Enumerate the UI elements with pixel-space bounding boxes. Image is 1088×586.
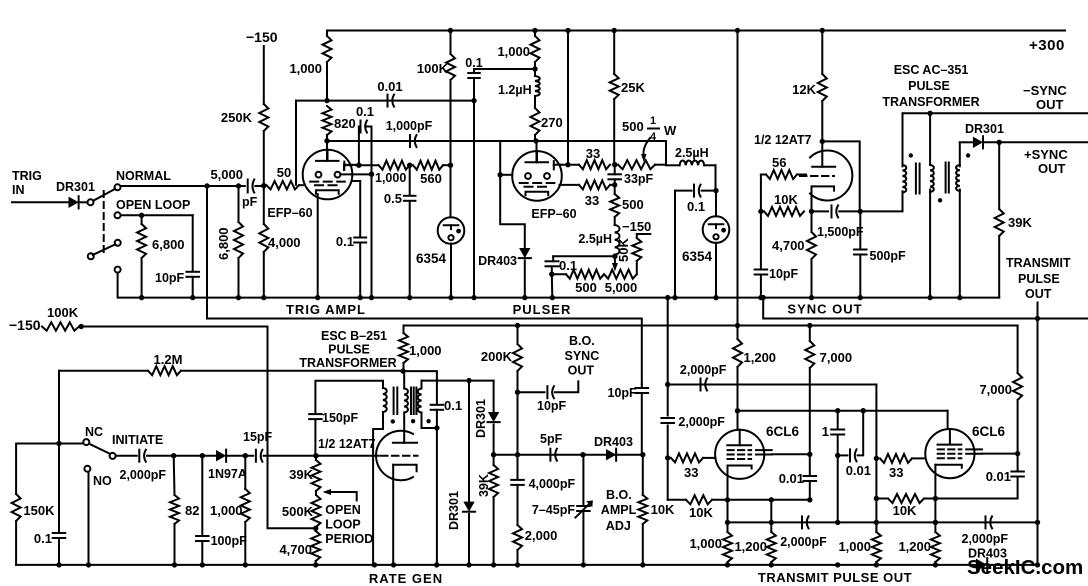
capacitor 4,000 pF bbox=[517, 455, 519, 480]
resistor 7,000 first bbox=[809, 326, 811, 342]
capacitor 2,000 pF lower bbox=[667, 385, 669, 416]
svg-text:0.1: 0.1 bbox=[687, 199, 705, 214]
section line sync out bbox=[763, 298, 1088, 319]
tube 6CL6 first bbox=[715, 430, 764, 479]
wire +300 to 6CL6 plates bbox=[737, 31, 739, 326]
svg-text:−150: −150 bbox=[622, 219, 651, 234]
resistor 82 bbox=[173, 456, 176, 495]
switch arm initiate bbox=[89, 444, 110, 454]
svg-text:150pF: 150pF bbox=[322, 411, 358, 425]
resistor 56 bbox=[761, 174, 766, 176]
capacitor 10 pF b.o. sync bbox=[518, 391, 545, 393]
svg-text:25K: 25K bbox=[621, 80, 645, 95]
wire plate bus 6CL6 bbox=[738, 410, 948, 412]
svg-text:NORMAL: NORMAL bbox=[116, 169, 171, 183]
-SYNC OUT wire bbox=[903, 112, 1088, 114]
wire +300 to screen V2 bbox=[567, 31, 569, 165]
svg-text:10K: 10K bbox=[651, 502, 675, 517]
svg-text:1: 1 bbox=[822, 424, 829, 439]
svg-text:39K: 39K bbox=[289, 467, 313, 482]
wire 0.1 to 1000 node bbox=[474, 68, 535, 70]
resistor 12K bbox=[821, 31, 823, 75]
capacitor 10 pF open loop bbox=[192, 215, 194, 271]
wire 2,000 pF top row bbox=[668, 384, 877, 386]
capacitor 500 pF bbox=[859, 211, 861, 249]
wire: -150 feed to 250K bbox=[263, 46, 265, 104]
svg-text:PERIOD: PERIOD bbox=[325, 532, 373, 546]
resistor 1,000 second body bbox=[872, 532, 881, 562]
wire trig to section line bbox=[206, 186, 208, 319]
svg-text:EFP–60: EFP–60 bbox=[531, 207, 576, 221]
resistor 1,200 first output bbox=[770, 500, 772, 532]
resistor 1.2M bbox=[59, 370, 148, 372]
resistor 7,000 second bbox=[1017, 326, 1019, 374]
svg-text:15pF: 15pF bbox=[243, 430, 273, 444]
resistor 1,000 cathode body bbox=[723, 532, 732, 562]
resistor 33 upper bbox=[561, 164, 579, 166]
svg-text:500: 500 bbox=[622, 119, 644, 134]
wire 1,000 pF coupling bbox=[327, 140, 666, 142]
open loop period arrow bbox=[330, 492, 357, 500]
+SYNC OUT wire bbox=[960, 141, 973, 143]
svg-text:OUT: OUT bbox=[1036, 97, 1064, 112]
svg-text:2,000pF: 2,000pF bbox=[678, 415, 725, 429]
resistor 500 screen bbox=[614, 185, 616, 194]
svg-text:+SYNC: +SYNC bbox=[1024, 147, 1068, 162]
capacitor 1 pF bbox=[837, 411, 839, 429]
resistor 200K bbox=[515, 323, 520, 328]
switch arm lower bbox=[93, 244, 116, 255]
wire NC to node bbox=[62, 443, 83, 445]
svg-text:0.1: 0.1 bbox=[34, 531, 52, 546]
svg-text:DR301: DR301 bbox=[965, 122, 1004, 136]
resistor 560 bbox=[413, 161, 443, 170]
switch pivot upper bbox=[88, 199, 94, 205]
wire screen 6CL6 second bbox=[982, 453, 1018, 455]
wire bypass to ground bbox=[473, 101, 475, 298]
svg-text:PULSER: PULSER bbox=[513, 302, 572, 317]
switch contact to ground bbox=[115, 267, 121, 273]
svg-text:0.1: 0.1 bbox=[465, 56, 482, 70]
capacitor 2,000 pF initiate bbox=[138, 450, 140, 462]
svg-text:DR403: DR403 bbox=[478, 254, 517, 268]
svg-text:2,000pF: 2,000pF bbox=[120, 468, 167, 482]
resistor 39K b.o. bbox=[493, 455, 495, 465]
svg-text:5,000: 5,000 bbox=[605, 280, 638, 295]
svg-text:OUT: OUT bbox=[1038, 161, 1066, 176]
wire anode chain V1 bbox=[343, 165, 345, 170]
diode DR301 rate gen bbox=[493, 381, 495, 412]
switch arm NORMAL bbox=[93, 189, 115, 201]
wire plate 6CL6 second bbox=[947, 411, 949, 429]
svg-text:OUT: OUT bbox=[568, 364, 595, 378]
transformer core bbox=[915, 164, 917, 194]
wire grid V2 tap bbox=[499, 141, 501, 175]
ground rail pulser bbox=[119, 297, 999, 299]
svg-text:NC: NC bbox=[85, 425, 103, 439]
wire x668 column bbox=[667, 298, 669, 385]
svg-text:INITIATE: INITIATE bbox=[112, 433, 163, 447]
wire plate to output network corner bbox=[665, 141, 667, 165]
svg-text:ADJ: ADJ bbox=[606, 519, 631, 533]
svg-text:DR301: DR301 bbox=[447, 491, 461, 530]
svg-text:7,000: 7,000 bbox=[979, 382, 1012, 397]
svg-text:1,200: 1,200 bbox=[734, 539, 767, 554]
svg-text:0.1: 0.1 bbox=[444, 398, 462, 413]
svg-text:10pF: 10pF bbox=[537, 399, 567, 413]
resistor 4,000 bbox=[263, 186, 265, 224]
svg-text:10pF: 10pF bbox=[608, 386, 638, 400]
svg-text:2.5µH: 2.5µH bbox=[578, 232, 612, 246]
svg-text:1: 1 bbox=[650, 115, 656, 127]
node 33pF top bbox=[612, 162, 617, 167]
svg-text:2.5µH: 2.5µH bbox=[675, 146, 709, 160]
resistor 1,000 second output bbox=[875, 522, 877, 532]
svg-text:TRANSMIT PULSE OUT: TRANSMIT PULSE OUT bbox=[758, 570, 912, 585]
wire -150 bus bbox=[81, 326, 267, 328]
svg-text:B.O.: B.O. bbox=[606, 488, 632, 502]
wire plate 6CL6 first bbox=[737, 411, 739, 430]
capacitor 10 pF pulser line bbox=[641, 384, 643, 388]
svg-text:39K: 39K bbox=[1008, 215, 1032, 230]
resistor 50 bbox=[267, 181, 300, 189]
svg-text:56: 56 bbox=[772, 155, 786, 170]
capacitor 150 pF bbox=[314, 420, 316, 456]
switch pivot lower bbox=[88, 253, 94, 259]
resistor 25K bbox=[613, 31, 615, 75]
svg-text:10K: 10K bbox=[893, 503, 917, 518]
svg-text:1,000: 1,000 bbox=[497, 44, 530, 59]
wire V1 pin2 bbox=[341, 173, 372, 175]
resistor 39K rate gen grid bbox=[315, 456, 317, 460]
transformer B-251 middle winding bbox=[403, 371, 405, 388]
svg-text:TRIG: TRIG bbox=[12, 169, 42, 183]
resistor 4,700 sync bbox=[811, 211, 813, 232]
capacitor 0.5 bbox=[409, 165, 411, 195]
capacitor 2,000 pF coupling bbox=[700, 379, 702, 391]
inductor 2.5 uH horizontal bbox=[666, 164, 680, 166]
wire b.o. coupling bus bbox=[494, 454, 643, 456]
svg-text:100K: 100K bbox=[417, 61, 449, 76]
svg-text:1,500pF: 1,500pF bbox=[817, 225, 864, 239]
wire b.o. drive down bbox=[468, 381, 470, 502]
transmit pulse out stub bbox=[1037, 303, 1039, 319]
wire screen bypass down bbox=[371, 127, 373, 298]
svg-text:OPEN LOOP: OPEN LOOP bbox=[116, 198, 190, 212]
svg-text:RATE GEN: RATE GEN bbox=[369, 571, 443, 586]
resistor 270 bbox=[534, 96, 536, 108]
wire interstage column bbox=[874, 456, 879, 461]
svg-text:1,000: 1,000 bbox=[375, 171, 406, 185]
svg-text:DR301: DR301 bbox=[474, 399, 488, 438]
svg-text:2,000pF: 2,000pF bbox=[780, 535, 827, 549]
inductor 1.2 uH bbox=[534, 69, 536, 76]
capacitor 1,000 pF bbox=[409, 135, 411, 147]
resistor 100K bbox=[450, 31, 452, 55]
wire -150 down to timing network bbox=[268, 327, 316, 529]
svg-text:PULSE: PULSE bbox=[1018, 272, 1060, 286]
resistor 1,200 second body bbox=[931, 532, 940, 562]
svg-text:560: 560 bbox=[420, 171, 442, 186]
resistor 4,700 rate gen bbox=[311, 531, 320, 561]
capacitor 0.01 second bbox=[1017, 454, 1019, 471]
capacitor 0.1 pulser cathode bbox=[552, 256, 554, 260]
svg-text:1N97A: 1N97A bbox=[208, 467, 247, 481]
tube 1/2 12AT7 sync bbox=[810, 150, 852, 200]
capacitor 0.01 feedback bbox=[838, 454, 848, 456]
svg-text:100pF: 100pF bbox=[211, 534, 247, 548]
svg-text:1,000: 1,000 bbox=[409, 343, 442, 358]
svg-text:1,000pF: 1,000pF bbox=[386, 119, 433, 133]
wire cathode filter bbox=[553, 255, 615, 257]
svg-text:12K: 12K bbox=[792, 82, 816, 97]
resistor 1,000 plate V2 bbox=[534, 31, 536, 37]
wire V2 cathode branch bbox=[500, 175, 525, 248]
diode DR403 b.o. bbox=[606, 449, 616, 460]
svg-text:−150: −150 bbox=[9, 317, 41, 333]
svg-text:1,000: 1,000 bbox=[689, 536, 722, 551]
diode DR403 output bbox=[976, 559, 987, 572]
wire rate gen signal bus bbox=[116, 455, 137, 457]
diode 1N97A bbox=[216, 450, 226, 461]
svg-text:+300: +300 bbox=[1029, 37, 1065, 54]
top +300 supply rail bbox=[327, 30, 1065, 32]
svg-text:6354: 6354 bbox=[416, 251, 447, 266]
node 820 top bbox=[324, 98, 329, 103]
svg-text:PULSE: PULSE bbox=[328, 343, 370, 357]
switch NO bbox=[84, 466, 90, 472]
svg-text:W: W bbox=[664, 123, 677, 138]
supply rail 6CL6 row bbox=[404, 325, 1018, 327]
svg-text:500: 500 bbox=[622, 197, 644, 212]
svg-text:270: 270 bbox=[541, 115, 563, 130]
svg-text:ESC B–251: ESC B–251 bbox=[321, 329, 387, 343]
junction plate wire bbox=[533, 138, 538, 143]
wire plate V1 into tube bbox=[326, 141, 328, 161]
ganged switch dashed link bbox=[103, 191, 105, 253]
svg-text:150K: 150K bbox=[23, 503, 55, 518]
capacitor 0.1 coupling top bbox=[473, 69, 475, 73]
wire plate to transformer bbox=[822, 141, 859, 211]
diode DR301 input bbox=[69, 197, 79, 208]
resistor 1,000 rate gen plate bbox=[403, 326, 405, 334]
svg-text:TRANSFORMER: TRANSFORMER bbox=[299, 356, 396, 370]
wire OPEN LOOP branch bbox=[121, 214, 193, 216]
svg-text:1,000: 1,000 bbox=[210, 503, 243, 518]
capacitor 100 pF bbox=[201, 456, 203, 536]
tube 6CL6 second bbox=[925, 429, 974, 478]
svg-text:−150: −150 bbox=[246, 29, 278, 45]
tube 1/2 12AT7 rate gen bbox=[376, 431, 413, 481]
svg-text:SYNC OUT: SYNC OUT bbox=[787, 302, 862, 317]
svg-text:4,700: 4,700 bbox=[279, 542, 312, 557]
resistor 150K bbox=[16, 444, 59, 495]
resistor 2,000 bbox=[517, 485, 519, 525]
transformer B-251 core bbox=[393, 388, 395, 415]
inductor 2.5 uH vertical bbox=[614, 217, 616, 225]
wire V1 cathode to ground bbox=[317, 194, 319, 298]
resistor 10K b.o. bbox=[642, 455, 644, 495]
svg-text:−SYNC: −SYNC bbox=[1023, 83, 1067, 98]
resistor 1,000 rate gen bbox=[244, 456, 246, 489]
trimmer 7-45 pF bbox=[582, 455, 584, 506]
capacitor 5 pF bbox=[549, 449, 551, 461]
resistor 33 6CL6 second bbox=[880, 454, 912, 463]
svg-text:10pF: 10pF bbox=[155, 271, 185, 285]
svg-text:LOOP: LOOP bbox=[325, 518, 360, 532]
resistor 33 6CL6 first bbox=[671, 453, 703, 462]
resistor 1,000 plate V1 bbox=[326, 31, 328, 37]
capacitor 2,000 pF output second bbox=[985, 516, 987, 528]
svg-text:500pF: 500pF bbox=[870, 249, 906, 263]
svg-text:4,700: 4,700 bbox=[772, 238, 805, 253]
wire 1.2M to NC bbox=[58, 371, 60, 444]
wire plate V2 bbox=[536, 141, 538, 162]
svg-text:33pF: 33pF bbox=[624, 172, 654, 186]
svg-text:50K: 50K bbox=[616, 238, 631, 262]
switch NC bbox=[83, 439, 89, 445]
section line trig-pulser bbox=[207, 319, 642, 385]
resistor 500 quarter-watt pot bbox=[618, 160, 655, 169]
transformer B-251 right winding bbox=[421, 381, 423, 389]
wire damper 0.1 column bbox=[431, 404, 444, 406]
svg-text:33: 33 bbox=[586, 146, 600, 161]
svg-text:1,000: 1,000 bbox=[289, 61, 322, 76]
svg-text:1.2µH: 1.2µH bbox=[498, 83, 532, 97]
svg-text:NO: NO bbox=[93, 474, 112, 488]
svg-text:pF: pF bbox=[242, 195, 258, 209]
node A junction bbox=[261, 183, 266, 188]
resistor 500K open loop period bbox=[312, 495, 321, 527]
wire right branch down bbox=[875, 385, 877, 533]
wire to damper network bbox=[403, 371, 437, 405]
svg-text:10pF: 10pF bbox=[769, 267, 799, 281]
svg-text:10K: 10K bbox=[689, 505, 713, 520]
svg-text:0.01: 0.01 bbox=[846, 463, 871, 478]
transformer secondary right bbox=[959, 142, 961, 166]
svg-text:500K: 500K bbox=[282, 504, 314, 519]
wire 1pF node down bbox=[837, 455, 839, 522]
svg-text:DR301: DR301 bbox=[56, 180, 95, 194]
resistor 100K rate gen bbox=[42, 322, 79, 330]
ground rail rate gen bbox=[16, 564, 976, 566]
resistor 820 bbox=[323, 106, 332, 135]
svg-text:DR403: DR403 bbox=[594, 435, 633, 449]
svg-text:ESC AC–351: ESC AC–351 bbox=[894, 63, 969, 77]
diode DR301 sync bbox=[973, 137, 983, 148]
svg-text:4,000pF: 4,000pF bbox=[529, 477, 576, 491]
svg-text:2,000pF: 2,000pF bbox=[962, 532, 1009, 546]
wire screen node bbox=[565, 162, 570, 167]
svg-text:IN: IN bbox=[12, 183, 25, 197]
svg-text:200K: 200K bbox=[481, 349, 513, 364]
svg-text:TRANSMIT: TRANSMIT bbox=[1006, 256, 1071, 270]
wire screen 6CL6 first bbox=[772, 453, 810, 455]
svg-text:6,800: 6,800 bbox=[152, 237, 185, 252]
wire to 10K cathode bbox=[667, 458, 669, 500]
capacitor 0.1 rate gen bbox=[58, 444, 60, 533]
resistor 500 bias bbox=[552, 273, 566, 275]
wire 200K to 5pF node bbox=[517, 392, 519, 455]
svg-text:SYNC: SYNC bbox=[565, 349, 600, 363]
svg-text:1,200: 1,200 bbox=[898, 539, 931, 554]
resistor 39K sync bbox=[998, 142, 1000, 209]
wire feedback to grid bbox=[295, 101, 297, 185]
transformer B-251 primary left winding bbox=[383, 388, 387, 412]
svg-text:0.01: 0.01 bbox=[986, 469, 1011, 484]
svg-text:2,000pF: 2,000pF bbox=[680, 363, 727, 377]
lamp 6354 second bbox=[715, 191, 717, 217]
svg-text:33: 33 bbox=[585, 193, 599, 208]
tube EFP-60 V2 bbox=[512, 151, 562, 201]
svg-text:50: 50 bbox=[277, 165, 291, 180]
svg-text:6CL6: 6CL6 bbox=[766, 424, 800, 439]
svg-text:0.1: 0.1 bbox=[336, 234, 354, 249]
wiper arrow 50K bbox=[614, 256, 616, 264]
svg-text:33: 33 bbox=[889, 465, 903, 480]
capacitor 0.01 first bbox=[809, 454, 811, 475]
tube EFP-60 V1 bbox=[303, 150, 353, 200]
capacitor 1,500 pF bbox=[812, 210, 829, 212]
svg-text:1/2 12AT7: 1/2 12AT7 bbox=[754, 133, 811, 147]
resistor 6,800 open loop bbox=[141, 215, 143, 224]
resistor 33 lower bbox=[560, 184, 580, 186]
resistor 10K sync bbox=[764, 207, 804, 216]
capacitor 33 pF bbox=[608, 173, 621, 175]
svg-text:500: 500 bbox=[575, 280, 597, 295]
node lower 33 bbox=[612, 182, 617, 187]
capacitor 10 pF sync bbox=[760, 211, 762, 269]
capacitor 5,000 pF bbox=[247, 180, 249, 193]
lamp 6354 V1 load bbox=[450, 165, 452, 217]
svg-text:OUT: OUT bbox=[1025, 287, 1052, 301]
capacitor 0.1 cathode V1 bbox=[352, 180, 361, 182]
svg-text:39K: 39K bbox=[477, 474, 491, 497]
resistor 250K bbox=[259, 104, 268, 131]
svg-text:5,000: 5,000 bbox=[210, 167, 243, 182]
wire to node A bbox=[255, 185, 263, 187]
svg-text:4: 4 bbox=[650, 131, 657, 143]
svg-text:6354: 6354 bbox=[682, 249, 713, 264]
wire cathode 6CL6 second bbox=[934, 465, 936, 532]
svg-text:0.1: 0.1 bbox=[356, 104, 374, 119]
resistor 5,000 bias bbox=[604, 270, 637, 279]
node plate V1 bbox=[324, 138, 329, 143]
wire to lamp 2 bbox=[715, 165, 717, 190]
node plate 12AT7 bbox=[820, 139, 825, 144]
wire 250K to input node bbox=[263, 131, 265, 186]
resistor 1,200 first bbox=[737, 326, 739, 340]
svg-text:6,800: 6,800 bbox=[216, 227, 231, 260]
capacitor 15 pF bbox=[255, 450, 257, 462]
svg-text:5pF: 5pF bbox=[540, 432, 563, 446]
capacitor 0.1 lamp branch bbox=[675, 190, 692, 192]
svg-text:250K: 250K bbox=[221, 110, 253, 125]
svg-text:0.01: 0.01 bbox=[779, 471, 804, 486]
capacitor 0.1 screen V1 bbox=[358, 127, 360, 166]
svg-text:AMPL: AMPL bbox=[601, 503, 637, 517]
switch lower contact bbox=[115, 240, 121, 246]
svg-text:B.O.: B.O. bbox=[569, 334, 595, 348]
svg-text:1,200: 1,200 bbox=[744, 350, 777, 365]
resistor 10K second bbox=[888, 494, 924, 503]
svg-text:33: 33 bbox=[684, 465, 698, 480]
svg-text:TRIG AMPL: TRIG AMPL bbox=[286, 302, 366, 317]
wire cathode rate gen bbox=[392, 465, 394, 565]
svg-text:1,000: 1,000 bbox=[838, 539, 871, 554]
resistor 50K to -150 bbox=[636, 261, 638, 274]
diode DR403 pulser bbox=[519, 248, 530, 258]
